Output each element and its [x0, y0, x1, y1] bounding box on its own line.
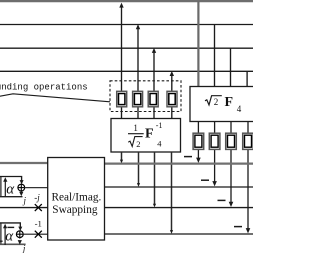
svg-text:F: F	[225, 95, 234, 110]
rounding op box 1 (right row)	[193, 133, 204, 149]
adder circle 2	[16, 231, 23, 238]
wire adder2 output stub to swap box	[23, 233, 48, 235]
wire top gray bus y=1	[0, 0, 253, 2]
lifting cell 1: left vertical	[0, 177, 2, 197]
svg-text:Real/Imag.: Real/Imag.	[51, 192, 101, 204]
label minus at left edge cell 2	[0, 240, 3, 242]
multiplier x2 on adder2 stub	[35, 231, 42, 238]
wire down from IF4 to L2	[137, 152, 140, 187]
wire vertical from y=71.3 bus into F4 box	[246, 71, 248, 86]
label minus at L1 junction	[184, 156, 192, 158]
svg-text:4: 4	[237, 104, 242, 114]
adder circle 1	[18, 184, 25, 191]
svg-text:2: 2	[136, 139, 140, 149]
wire adder1 output stub to swap box	[25, 187, 48, 189]
wire L3 right	[105, 207, 254, 209]
label minus at L3 junction	[218, 199, 226, 201]
block F4: sqrt2 F4	[190, 87, 256, 122]
wire down from IF4 to L1	[120, 152, 123, 163]
adder 2 down arrow to bottom line	[18, 238, 22, 245]
block IF4: (1/sqrt2) F4^-1	[111, 119, 181, 153]
svg-text:α: α	[6, 181, 15, 197]
wire down from F4 through rounding to L4 with arrow	[246, 122, 251, 234]
wire vertical gray from top bus into F4 box	[197, 1, 199, 86]
lifting cell 1: alpha up-arrow	[3, 177, 7, 197]
wire bus line y=71.3	[0, 70, 253, 72]
rounding op box 1 (top row)	[117, 91, 127, 107]
svg-text:-j: -j	[34, 192, 40, 202]
svg-text:-1: -1	[35, 218, 42, 228]
label minus above alpha 2	[7, 226, 14, 228]
multiplier x1 on L3	[35, 204, 42, 211]
svg-text:1: 1	[133, 123, 138, 133]
rounding op box 2 (top row)	[133, 91, 143, 107]
wire bus line y=24.5	[0, 24, 253, 26]
wire callout line to dashed box	[0, 94, 110, 102]
rounding op box 4 (right row)	[243, 133, 254, 149]
lifting cell 2: top line	[0, 223, 22, 231]
svg-text:-1: -1	[156, 121, 163, 130]
wire vertical from y=48.2 bus into F4 box	[230, 48, 232, 86]
svg-text:F: F	[145, 127, 154, 142]
svg-text:α: α	[5, 229, 14, 245]
svg-text:Swapping: Swapping	[52, 204, 98, 216]
lifting cell 1: bottom line	[0, 196, 23, 198]
wire L1 left gray	[0, 162, 48, 164]
block Real/Imag Swapping	[48, 158, 105, 241]
lifting cell 1: top line	[0, 177, 24, 185]
rounding op box 3 (right row)	[226, 133, 237, 149]
wire up-arrow 1 from IF4 box to top gray bus	[119, 3, 123, 119]
lifting cell 2: alpha up-arrow	[3, 224, 7, 245]
adder 1 down arrow to bottom line	[19, 191, 23, 196]
svg-text:j: j	[22, 243, 26, 253]
label minus at L4 junction	[234, 226, 242, 228]
wire L1 right gray	[105, 163, 254, 165]
wire down from F4 through rounding to L2 with arrow	[212, 122, 217, 187]
wire down from F4 through rounding to L1 with arrow	[196, 122, 201, 163]
lifting cell 2: left vertical	[0, 223, 2, 245]
label minus at L2 junction	[201, 179, 209, 181]
svg-text:2: 2	[214, 97, 219, 107]
rounding op box 3 (top row)	[148, 91, 158, 107]
wire down from IF4 to L4	[170, 152, 173, 234]
wire down from IF4 to L3	[153, 152, 156, 207]
lifting cell 2: bottom line	[0, 243, 26, 245]
rounding op box 4 (top row)	[167, 91, 177, 107]
svg-text:unding operations: unding operations	[0, 82, 88, 92]
wire bus line y=48.2	[0, 47, 253, 49]
wire up-arrow 3 from IF4 box to y=48.2 bus	[152, 48, 156, 119]
wire up-arrow 2 from IF4 box to y=24.5 bus	[136, 24, 140, 118]
wire L2 right	[105, 186, 254, 188]
wire down from F4 through rounding to L3 with arrow	[229, 122, 234, 208]
rounding op box 2 (right row)	[209, 133, 220, 149]
wire vertical from y=24.5 bus into F4 box	[214, 25, 216, 87]
wire L3 left	[0, 207, 48, 209]
svg-text:j: j	[23, 195, 27, 205]
dashed box rounding operations group	[110, 81, 181, 112]
wire up-arrow 4 from IF4 box to y=71.3 bus	[170, 71, 174, 119]
wire L4 right	[105, 233, 254, 235]
svg-text:4: 4	[157, 139, 162, 149]
